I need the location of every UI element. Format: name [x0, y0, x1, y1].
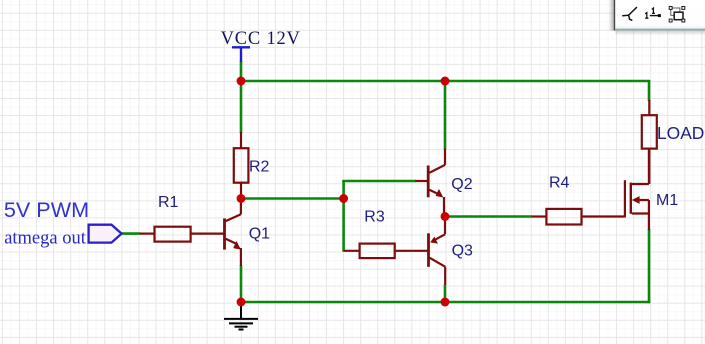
svg-text:atmega out: atmega out	[4, 228, 87, 248]
svg-text:LOAD: LOAD	[657, 123, 704, 143]
svg-text:Q2: Q2	[451, 176, 472, 193]
svg-text:R3: R3	[364, 208, 385, 225]
svg-text:M1: M1	[656, 192, 678, 209]
svg-text:R1: R1	[158, 194, 179, 211]
svg-text:R2: R2	[249, 159, 270, 176]
svg-text:Q3: Q3	[452, 243, 473, 260]
svg-text:Q1: Q1	[249, 226, 270, 243]
svg-text:VCC 12V: VCC 12V	[221, 29, 301, 49]
svg-text:R4: R4	[549, 175, 570, 192]
svg-text:5V PWM: 5V PWM	[4, 197, 89, 222]
